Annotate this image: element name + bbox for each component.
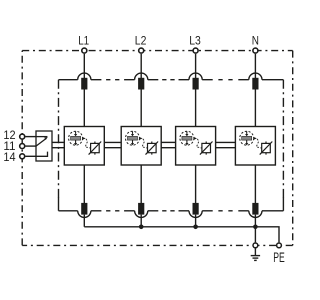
terminal L3	[193, 48, 198, 53]
wire lower disconnector to PE bus	[195, 215, 197, 227]
SPD module L1: spark gap dashed circle	[69, 131, 83, 145]
terminal 11	[20, 144, 25, 149]
mechanical link module L2 to L3 (double line)	[161, 141, 175, 143]
svg-text:14: 14	[3, 150, 15, 164]
SPD module L3: varistor diagonal	[200, 142, 213, 155]
thermal disconnector (upper, N): contact block	[252, 78, 258, 90]
SPD module L3: box	[176, 127, 216, 166]
wire module N to lower disconnector	[254, 165, 256, 203]
wire lower disconnector to PE bus	[140, 215, 142, 227]
SPD module L3: varistor square	[202, 143, 211, 152]
wire L3 terminal to upper disconnector	[195, 54, 197, 78]
SPD module N: spark gap electrode (grey)	[242, 136, 252, 140]
thermal disconnector (upper, L2): contact block	[138, 78, 144, 90]
SPD module L3: lower arrow	[186, 140, 188, 143]
SPD module L1: trigger arrow + dashed link	[83, 137, 86, 140]
SPD module N: lower arrow	[246, 140, 248, 143]
wire upper disconnector to module L2	[140, 90, 142, 127]
SPD module L2: box	[121, 127, 161, 166]
wire module L3 to lower disconnector	[195, 165, 197, 203]
junction dot L2 on PE bus	[139, 225, 144, 230]
remote signalling contact: switch blade from 11	[36, 139, 46, 146]
wire module L1 to lower disconnector	[83, 165, 85, 203]
enclosure dash-dot border (right)	[292, 51, 294, 246]
ground terminal circle	[253, 243, 258, 248]
thermal disconnector (upper, L1): contact block	[81, 78, 87, 90]
remote signalling contact: box	[36, 131, 52, 161]
mechanical link module L1 to L2 (double line)	[104, 141, 121, 143]
wire upper disconnector to module L1	[83, 90, 85, 127]
SPD module L2: upper arrow	[132, 131, 134, 134]
PE terminal circle	[277, 243, 282, 248]
mechanical link contact-box to module L1 (double line)	[52, 141, 64, 143]
SPD module N: box	[235, 127, 275, 166]
PE bus wire	[84, 227, 279, 243]
enclosure dash-dot border (top)	[22, 50, 293, 52]
thermal disconnector (lower, L1): arc	[78, 211, 91, 218]
thermal disconnector (upper, N): arc	[249, 73, 262, 80]
SPD module L3: upper arrow	[186, 131, 188, 134]
thermal disconnector (upper, L3): arc	[189, 73, 202, 80]
wire L2 terminal to upper disconnector	[140, 54, 142, 78]
SPD module L1: spark gap electrode (grey)	[71, 136, 81, 140]
SPD module L1: upper arrow	[75, 131, 77, 134]
SPD module L2: spark gap electrode (grey)	[128, 136, 138, 140]
SPD module N: varistor square	[262, 143, 271, 152]
thermal disconnector (lower, L3): contact block	[193, 203, 199, 215]
wire lower disconnector to PE bus	[83, 215, 85, 227]
terminal N	[253, 48, 258, 53]
wire L1 terminal to upper disconnector	[83, 54, 85, 78]
linkage vertical (left, to remote contact)	[58, 80, 60, 198]
terminal L2	[139, 48, 144, 53]
SPD module N: spark gap dashed circle	[240, 131, 254, 145]
SPD module N: trigger arrow + dashed link	[254, 137, 257, 140]
thermal disconnector (upper, L3): contact block	[193, 78, 199, 90]
thermal disconnector (upper, L1): arc	[78, 73, 91, 80]
remote signalling contact: wires from terminals 12 11 14	[25, 136, 36, 138]
wire upper disconnector to module L3	[195, 90, 197, 127]
SPD module L1: lower arrow	[75, 140, 77, 143]
wire N terminal to upper disconnector	[254, 54, 256, 78]
SPD module L3: trigger arrow + dashed link	[194, 137, 197, 140]
thermal disconnector (lower, L1): contact block	[81, 203, 87, 215]
SPD module N: varistor diagonal	[260, 142, 273, 155]
linkage vertical (right)	[282, 80, 284, 198]
wire N junction to ground terminal	[254, 227, 256, 243]
SPD module L3: spark gap dashed circle	[180, 131, 194, 145]
ground symbol	[254, 248, 256, 255]
SPD module L2: lower arrow	[132, 140, 134, 143]
thermal disconnector (lower, L3): arc	[189, 211, 202, 218]
terminal 14	[20, 154, 25, 159]
terminal L1	[82, 48, 87, 53]
disconnector linkage line (bottom)	[59, 210, 78, 212]
SPD module L3: spark gap electrode (grey)	[182, 136, 192, 140]
thermal disconnector (lower, N): contact block	[252, 203, 258, 215]
svg-text:L2: L2	[135, 36, 147, 48]
disconnector linkage line (top)	[59, 79, 78, 81]
wire module L2 to lower disconnector	[140, 165, 142, 203]
mechanical link module L3 to N (double line)	[216, 141, 236, 143]
junction dot L3 on PE bus	[193, 225, 198, 230]
svg-text:L3: L3	[189, 36, 201, 48]
SPD module L1: varistor square	[91, 143, 100, 152]
SPD module L2: trigger arrow + dashed link	[140, 137, 143, 140]
junction dot N on PE bus	[253, 225, 258, 230]
enclosure dash-dot border (bottom)	[22, 244, 293, 246]
SPD module L2: spark gap dashed circle	[126, 131, 140, 145]
svg-text:PE: PE	[273, 250, 285, 265]
remote signalling contact: contact 14 L-stub	[36, 152, 48, 157]
wire lower disconnector to PE bus	[254, 215, 256, 227]
SPD module L2: varistor square	[148, 143, 157, 152]
thermal disconnector (lower, L2): contact block	[138, 203, 144, 215]
terminal 12	[20, 134, 25, 139]
SPD module N: upper arrow	[246, 131, 248, 134]
thermal disconnector (lower, N): arc	[249, 211, 262, 218]
thermal disconnector (upper, L2): arc	[135, 73, 148, 80]
SPD module L2: varistor diagonal	[146, 142, 159, 155]
svg-text:L1: L1	[78, 36, 89, 48]
remote signalling contact: contact 12 line	[36, 136, 47, 138]
SPD module L1: box	[64, 127, 104, 166]
wire upper disconnector to module N	[254, 90, 256, 127]
enclosure dash-dot border (left)	[21, 51, 23, 246]
thermal disconnector (lower, L2): arc	[135, 211, 148, 218]
SPD module L1: varistor diagonal	[89, 142, 102, 155]
svg-text:N: N	[252, 36, 259, 48]
